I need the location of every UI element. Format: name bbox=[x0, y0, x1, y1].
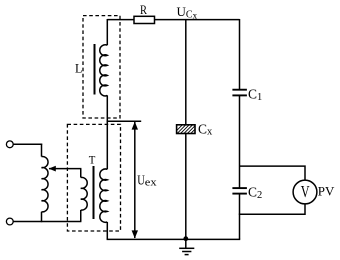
wire: top horizontal from L to right rail bbox=[107, 19, 239, 21]
voltmeter PV circle bbox=[293, 180, 317, 204]
variac winding lead bbox=[41, 144, 43, 157]
wire: top terminal lead bbox=[13, 143, 42, 145]
capacitor C2 plates bbox=[232, 187, 247, 189]
wire: middle vertical rail through Cx bbox=[185, 20, 187, 240]
inductor L core bar bbox=[94, 44, 96, 95]
transformer T primary top lead bbox=[80, 169, 82, 178]
dashed box around T bbox=[67, 124, 120, 231]
variac (adjustable autotransformer) winding bbox=[42, 157, 49, 212]
svg-text:R: R bbox=[140, 2, 147, 17]
wire: bottom return to variac bbox=[13, 221, 81, 223]
svg-text:PV: PV bbox=[318, 184, 335, 199]
wire: secondary bottom lead bbox=[106, 222, 108, 239]
dashed box around L bbox=[83, 16, 120, 118]
Uex arrowhead top bbox=[132, 122, 138, 130]
variac bottom lead bbox=[41, 212, 43, 222]
wire: right rail C1 to C2 bbox=[239, 95, 241, 188]
wire: right rail below C2 bbox=[239, 194, 241, 240]
transformer T core bar bbox=[93, 166, 95, 219]
ground symbol bbox=[185, 239, 187, 248]
input terminal bottom (open circle) bbox=[6, 218, 13, 225]
wire: right vertical rail bbox=[239, 19, 241, 89]
transformer T primary coil bbox=[81, 177, 87, 210]
svg-text:L: L bbox=[75, 60, 82, 75]
wire: voltmeter branch top bbox=[240, 166, 306, 180]
wire: vertical lead from L down to T secondary bbox=[106, 95, 108, 169]
wire: bottom horizontal rail bbox=[107, 238, 241, 240]
variac tap arrowhead bbox=[49, 166, 56, 172]
Uex arrowhead bottom bbox=[132, 230, 138, 238]
resistor R bbox=[134, 16, 155, 23]
wire: primary bottom lead bbox=[80, 210, 82, 222]
junction dot at ground node bbox=[183, 236, 188, 241]
transformer T secondary coil bbox=[100, 169, 107, 222]
input terminal top (open circle) bbox=[6, 141, 13, 148]
svg-text:V: V bbox=[301, 182, 310, 201]
capacitor C1 plates bbox=[232, 89, 247, 91]
svg-text:T: T bbox=[89, 152, 96, 166]
inductor L coil bbox=[100, 45, 108, 96]
wire: L top lead bbox=[106, 19, 108, 45]
variac tap wire to T primary bbox=[49, 168, 81, 170]
wire: voltmeter branch bottom bbox=[239, 204, 305, 214]
wire: Uex stub bbox=[107, 120, 142, 122]
test object Cx hatched box bbox=[171, 124, 207, 136]
Uex measurement arrow line bbox=[134, 122, 136, 238]
